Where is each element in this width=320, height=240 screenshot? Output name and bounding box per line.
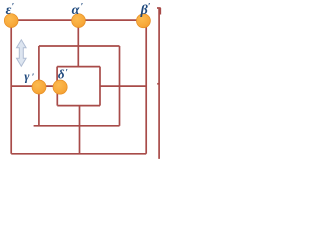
node gamma' [32,80,46,94]
wire hook vertical joins right edge [159,8,161,15]
wire outer top [11,19,146,21]
wire outer right (beta drop) [145,20,147,154]
wire corridor horizontal [57,66,100,68]
wire delta riser [56,67,58,88]
svg-text:′: ′ [12,2,15,12]
wire inner bottom horizontal [57,105,100,107]
svg-text:′: ′ [32,72,35,82]
wire gamma-delta horizontal [11,85,66,87]
svg-text:′: ′ [81,2,84,12]
wire ring2 bottom [34,125,120,127]
wire center drop [79,106,81,154]
wire hook horizontal top-right [157,7,161,9]
svg-text:α: α [72,3,80,18]
svg-text:′: ′ [65,67,68,77]
node epsilon' [4,14,18,28]
wire outer left [10,20,12,154]
wire right edge stub [157,83,159,85]
wire right edge vertical [158,9,160,159]
svg-text:δ: δ [58,66,65,81]
svg-text:γ: γ [24,69,30,83]
wire inner cross horizontal right [100,85,146,87]
wire alpha drop [77,20,79,67]
wire ring2 top [39,45,120,47]
wire delta drop [56,87,58,106]
wire inner right vertical [99,67,101,106]
wire ring2 left [38,46,40,126]
node alpha' [72,14,86,28]
wire ring2 right [119,46,121,126]
svg-text:′: ′ [148,2,151,12]
arrow (double-headed, light blue) [17,40,27,67]
node delta' [53,80,67,94]
node beta' [136,14,150,28]
wire outer bottom [11,153,146,155]
